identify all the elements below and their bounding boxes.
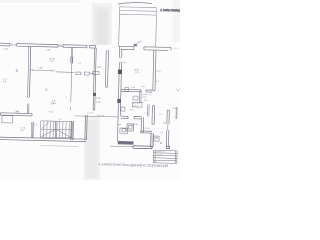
svg-text:2.4: 2.4 [58, 119, 62, 121]
svg-text:1.05: 1.05 [46, 50, 51, 52]
svg-text:1. ПЛАН ГАРАЖА: 1. ПЛАН ГАРАЖА [160, 8, 180, 13]
svg-text:13.9: 13.9 [50, 103, 55, 105]
svg-text:2.10: 2.10 [156, 71, 161, 73]
svg-text:2.10: 2.10 [96, 102, 101, 104]
svg-text:п: п [153, 134, 154, 136]
svg-text:1 м: 1 м [172, 108, 176, 110]
svg-text:14.4: 14.4 [129, 109, 134, 111]
svg-text:0.9 м: 0.9 м [132, 124, 138, 126]
svg-text:1.2: 1.2 [34, 124, 38, 126]
svg-text:5.0: 5.0 [20, 130, 24, 132]
svg-text:В: В [16, 69, 18, 73]
svg-text:1.10: 1.10 [51, 70, 56, 72]
svg-text:1.4: 1.4 [159, 113, 163, 115]
svg-text:2 м: 2 м [122, 62, 126, 64]
svg-text:2 м: 2 м [131, 87, 135, 89]
svg-text:14.4 м: 14.4 м [143, 128, 150, 130]
svg-text:1.4: 1.4 [156, 81, 160, 83]
svg-text:4.9: 4.9 [3, 81, 7, 83]
svg-text:17.0: 17.0 [49, 61, 54, 63]
svg-text:2.05: 2.05 [96, 98, 101, 100]
svg-text:14.2: 14.2 [142, 97, 147, 99]
svg-text:+1.9: +1.9 [48, 112, 53, 114]
svg-text:1.05: 1.05 [96, 67, 101, 69]
svg-text:4.50: 4.50 [38, 68, 43, 70]
svg-text:0.9: 0.9 [144, 100, 148, 102]
svg-text:3.10: 3.10 [3, 49, 8, 51]
svg-text:з 2: з 2 [78, 63, 82, 65]
svg-text:14.4: 14.4 [133, 106, 138, 108]
svg-text:2.4: 2.4 [160, 132, 164, 134]
svg-text:7м: 7м [134, 45, 137, 47]
svg-text:2.0: 2.0 [163, 123, 167, 125]
svg-text:1: 1 [66, 97, 68, 99]
svg-text:1.4 м: 1.4 м [87, 112, 93, 114]
svg-text:17.0: 17.0 [135, 72, 140, 74]
svg-text:1.15: 1.15 [144, 113, 149, 115]
svg-text:4. ХАРАКТЕРИСТИКА ЗДАНИЙ И СОО: 4. ХАРАКТЕРИСТИКА ЗДАНИЙ И СООРУЖЕНИЙ [98, 162, 169, 168]
svg-text:14.4 ш: 14.4 ш [97, 115, 104, 117]
svg-text:Б: Б [45, 88, 47, 92]
svg-text:0.9: 0.9 [149, 94, 153, 96]
